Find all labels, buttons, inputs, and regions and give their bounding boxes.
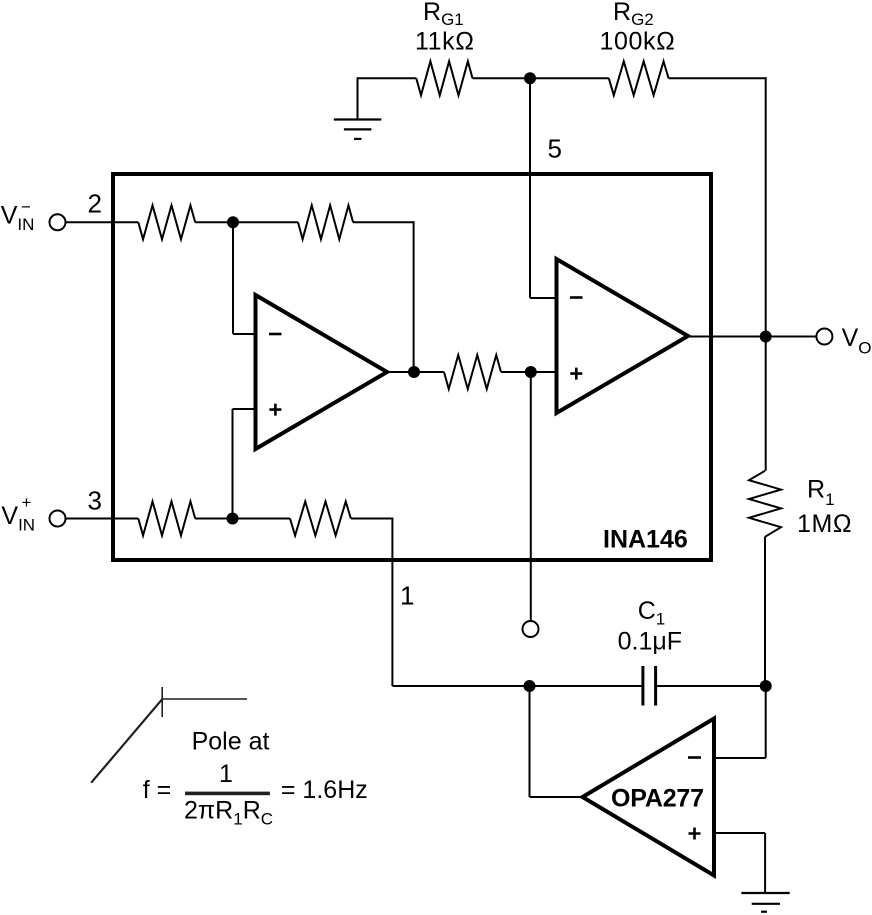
resistor R_A bbox=[138, 205, 195, 239]
bode plot icon tick bbox=[161, 687, 163, 717]
wire OPA277 minus to right bbox=[712, 757, 766, 759]
resistor R1 bbox=[749, 471, 781, 537]
svg-text:= 1.6Hz: = 1.6Hz bbox=[281, 776, 368, 804]
wire pin5 vertical bbox=[529, 78, 531, 298]
A1 minus symbol bbox=[269, 333, 282, 336]
wire pin5 to A2 minus input bbox=[530, 297, 555, 299]
svg-text:1: 1 bbox=[219, 760, 233, 788]
terminal VIN+ bbox=[50, 511, 66, 527]
op-amp A1 bbox=[256, 295, 388, 449]
wire ground lead top bbox=[358, 77, 417, 79]
svg-text:2: 2 bbox=[88, 189, 102, 219]
svg-text:Pole at: Pole at bbox=[192, 728, 270, 756]
wire R_A to R_B bbox=[195, 221, 298, 223]
resistor R_B bbox=[298, 205, 353, 239]
wire into A1 minus bbox=[233, 333, 255, 335]
wire A1 plus down to node B bbox=[232, 409, 234, 519]
A1 plus symbol bbox=[269, 404, 281, 416]
op-amp A2 bbox=[557, 259, 689, 413]
formula fraction bar bbox=[185, 792, 270, 796]
ground GND1 bbox=[334, 120, 382, 139]
wire OPA277 plus down to ground bbox=[764, 833, 766, 893]
resistor R5 bbox=[444, 355, 501, 389]
wire node C down to open terminal bbox=[530, 372, 532, 622]
svg-text:RG1: RG1 bbox=[423, 0, 464, 29]
wire A2 output bbox=[690, 336, 766, 338]
wire output node down to R1 bbox=[765, 337, 767, 471]
wire OPA277 output bbox=[530, 796, 585, 798]
wire ground vertical top bbox=[357, 77, 359, 119]
svg-text:OPA277: OPA277 bbox=[611, 785, 704, 813]
svg-text:VO: VO bbox=[842, 324, 872, 358]
terminal VIN- bbox=[50, 214, 66, 230]
svg-text:INA146: INA146 bbox=[603, 526, 688, 554]
wire RG1 to RG2 bbox=[473, 77, 609, 79]
junction node C1 right bbox=[760, 680, 772, 692]
junction node VO bbox=[760, 331, 772, 343]
wire R1 to C1 node bbox=[764, 537, 766, 686]
op-amp OPA277 bbox=[583, 719, 715, 876]
svg-text:100kΩ: 100kΩ bbox=[600, 28, 676, 56]
svg-text:f =: f = bbox=[143, 776, 172, 804]
wire VIN+ input bbox=[65, 518, 138, 520]
wire C1 node down to OPA277 output bbox=[529, 686, 531, 797]
wire A1 output to R5 bbox=[388, 371, 444, 373]
wire RG2 to right rail bbox=[669, 77, 766, 79]
svg-text:3: 3 bbox=[88, 486, 102, 516]
svg-text:2πR1RC: 2πR1RC bbox=[184, 797, 273, 829]
wire node A to A1 minus bbox=[232, 222, 234, 334]
junction node A (minus row) bbox=[227, 216, 239, 228]
OPA277 minus symbol bbox=[688, 756, 701, 759]
resistor R_C bbox=[138, 502, 195, 536]
junction node RG1/RG2 bbox=[524, 72, 536, 84]
bode plot icon horizontal bbox=[162, 698, 247, 700]
svg-text:1MΩ: 1MΩ bbox=[797, 510, 852, 538]
wire feedback down to A1 output bbox=[413, 221, 415, 372]
wire pin1 vertical bbox=[391, 518, 393, 687]
svg-text:11kΩ: 11kΩ bbox=[415, 28, 475, 56]
junction node C (A2 plus) bbox=[525, 366, 537, 378]
svg-text:1: 1 bbox=[400, 581, 414, 611]
IC box INA146 bbox=[113, 174, 711, 560]
OPA277 plus symbol bbox=[689, 828, 701, 840]
wire OPA277 plus right bbox=[712, 832, 765, 834]
svg-text:RG2: RG2 bbox=[613, 0, 654, 29]
bode plot icon diagonal bbox=[91, 699, 162, 783]
svg-text:5: 5 bbox=[548, 134, 562, 164]
wire R_D to pin1 corner bbox=[351, 518, 392, 520]
ground GND2 bbox=[741, 893, 789, 912]
junction node A1 output bbox=[408, 366, 420, 378]
terminal VO bbox=[816, 329, 832, 345]
wire right rail down to output node bbox=[765, 77, 767, 336]
resistor RG2 bbox=[609, 61, 669, 95]
terminal open pin below box bbox=[523, 621, 539, 637]
wire output node to VO terminal bbox=[766, 336, 817, 338]
resistor R_D bbox=[290, 502, 351, 536]
A2 plus symbol bbox=[570, 368, 582, 380]
junction node B (plus row) bbox=[227, 513, 239, 525]
wire VIN- input bbox=[65, 221, 138, 223]
svg-text:R1: R1 bbox=[807, 476, 835, 510]
svg-text:−: − bbox=[21, 197, 31, 216]
svg-text:C1: C1 bbox=[638, 597, 666, 629]
wire R_C to R_D bbox=[195, 518, 290, 520]
svg-text:0.1μF: 0.1μF bbox=[618, 628, 682, 656]
A2 minus symbol bbox=[570, 296, 583, 299]
wire A1 plus left bbox=[233, 408, 255, 410]
capacitor C1 plates bbox=[643, 666, 656, 706]
wire R_B right bbox=[353, 221, 414, 223]
wire C1 to right node bbox=[657, 685, 766, 687]
wire right node down to OPA277 minus bbox=[765, 686, 767, 758]
resistor RG1 bbox=[416, 61, 472, 95]
svg-text:+: + bbox=[22, 493, 32, 512]
junction node C1 left bbox=[524, 680, 536, 692]
wire pin1 node to C1 bbox=[392, 685, 641, 687]
wire R5 to A2 plus bbox=[501, 371, 555, 373]
